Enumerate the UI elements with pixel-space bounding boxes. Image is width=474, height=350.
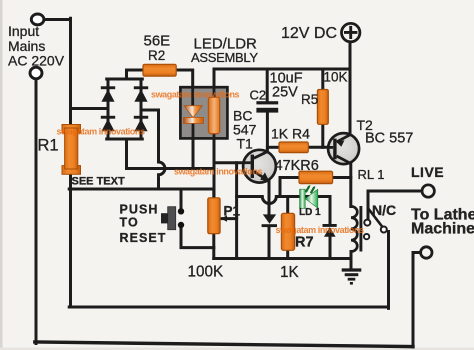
wire: junction to R4 left <box>267 146 279 149</box>
terminal: 12V DC plus <box>342 23 360 41</box>
LED/LDR assembly box <box>180 87 227 138</box>
svg-text:TO: TO <box>120 216 139 230</box>
svg-text:swagatam innovations: swagatam innovations <box>57 127 146 137</box>
relay contact A (N/C) <box>364 220 370 226</box>
resistor R5 <box>317 90 328 125</box>
bridge diode bottom-right <box>134 116 148 132</box>
wire: R6 right lead <box>333 176 351 179</box>
LDR <box>208 97 219 133</box>
svg-text:BC 557: BC 557 <box>365 131 413 147</box>
opto LED cathode bar <box>184 117 204 123</box>
wire: node horizontal y196 with hop over emitter line <box>237 197 330 204</box>
svg-text:R2: R2 <box>148 48 165 63</box>
terminal: mains input bottom <box>30 67 42 79</box>
wire: left outer vertical from terminal 2 <box>35 79 38 344</box>
svg-text:R1: R1 <box>38 137 59 155</box>
svg-text:N/C: N/C <box>372 202 396 218</box>
svg-text:RESET: RESET <box>120 231 167 245</box>
wire: C2 bottom lead to T1 collector <box>266 112 269 152</box>
svg-text:AC 220V: AC 220V <box>8 53 65 69</box>
svg-text:12V DC: 12V DC <box>281 25 337 42</box>
relay core bar <box>359 206 362 252</box>
wire: push button top lead <box>180 189 183 209</box>
wire: right outer vertical to lathe terminal <box>412 253 415 348</box>
terminal: lathe lower output <box>421 247 432 258</box>
svg-text:1K: 1K <box>280 264 300 281</box>
wire: T1 emitter lead to diode1 <box>268 181 271 216</box>
wire: T1 base lead <box>214 161 244 164</box>
wire: node X horizontal y189 <box>69 188 214 191</box>
relay RL1 coil <box>351 206 357 251</box>
LED lead inside assembly <box>191 88 194 138</box>
svg-text:T1: T1 <box>237 136 254 152</box>
wire: P1 top lead <box>212 189 215 199</box>
potentiometer P1 <box>208 198 220 234</box>
resistor R4 <box>279 142 308 153</box>
wire: LIVE wire to contact A <box>368 191 421 220</box>
bridge diode bottom-left <box>101 116 115 132</box>
resistor R2 <box>143 64 176 76</box>
relay armature <box>369 210 383 228</box>
wire: relay coil bottom to ground <box>350 252 353 268</box>
P1 wiper arrowhead <box>221 215 227 221</box>
bridge diode top-left <box>101 86 115 102</box>
push button <box>161 207 184 230</box>
svg-text:56E: 56E <box>144 33 171 50</box>
LDR lead inside assembly <box>213 88 216 138</box>
wire: R1 bottom to node X <box>69 174 72 190</box>
svg-text:LD 1: LD 1 <box>299 207 321 218</box>
wire: outer bottom rail <box>35 342 413 347</box>
resistor R7 <box>281 213 294 250</box>
svg-text:ASSEMBLY: ASSEMBLY <box>191 50 258 65</box>
svg-text:RL 1: RL 1 <box>358 167 385 182</box>
relay contact B (pole) <box>381 227 387 233</box>
svg-text:swagatam innovations: swagatam innovations <box>151 90 240 100</box>
LED LD1 green <box>300 185 318 208</box>
label Input Mains AC 220V <box>8 23 65 69</box>
wire: mains live vertical down to R1 <box>69 18 72 125</box>
wire: R2 right lead to LED anode <box>176 70 193 106</box>
resistor R6 <box>299 171 333 183</box>
wire: R4 right to T2 base <box>308 146 329 149</box>
svg-text:SEE TEXT: SEE TEXT <box>72 176 125 188</box>
resistor R1 <box>62 125 81 175</box>
wire: LDR top lead <box>213 70 216 98</box>
wire: P1 wiper <box>222 217 237 220</box>
photo left edge <box>0 0 3 350</box>
svg-text:swagatam innovations: swagatam innovations <box>174 167 263 177</box>
wire: R5 bottom lead <box>321 124 324 147</box>
bridge rectifier left branch <box>107 79 110 139</box>
svg-text:25V: 25V <box>272 85 298 101</box>
terminal: LIVE output <box>422 185 434 197</box>
diode D2 right of R7 <box>323 224 337 237</box>
wire: bridge AC right tap <box>141 109 159 112</box>
svg-text:47KR6: 47KR6 <box>275 158 319 174</box>
wire: node X down to inner bottom rail <box>69 189 72 307</box>
wire: 12V top rail <box>214 68 350 71</box>
wire: diode2 bottom lead <box>329 237 332 259</box>
wire: push button bottom lead <box>181 228 214 248</box>
bridge diode top-right <box>134 86 148 102</box>
opto LED triangle <box>184 106 203 118</box>
svg-text:Input: Input <box>8 23 39 39</box>
wire: diode1 bottom lead <box>268 227 271 259</box>
capacitor C2 <box>256 101 278 112</box>
wire: AC2 vertical with hop over DC- line <box>159 110 165 189</box>
label PUSH TO RESET <box>120 203 167 246</box>
bridge bottom rail <box>107 138 143 141</box>
wire: P1 bottom lead <box>212 233 215 259</box>
wire: inner rail up to relay contact B <box>387 232 390 309</box>
svg-text:swagatam innovations: swagatam innovations <box>276 225 365 235</box>
wire: tap to bridge AC left <box>71 107 109 110</box>
bridge rectifier right branch <box>140 79 143 139</box>
svg-text:1K R4: 1K R4 <box>271 126 310 142</box>
transistor T2 BC557 <box>328 133 359 164</box>
wire: ground bottom rail <box>214 257 351 260</box>
svg-text:PUSH: PUSH <box>120 203 159 217</box>
wire: LED cathode lead <box>192 123 195 169</box>
wire: R7 bottom lead <box>286 250 289 259</box>
wire: inner bottom rail <box>69 306 388 309</box>
terminal: mains input top <box>31 14 44 25</box>
ground symbol <box>342 270 362 283</box>
svg-text:10K: 10K <box>324 70 348 85</box>
wire: R5 top lead <box>321 69 324 90</box>
wire: R6 left lead down to node <box>280 178 299 197</box>
svg-text:R7: R7 <box>295 235 314 251</box>
svg-text:C2: C2 <box>250 88 267 103</box>
svg-text:100K: 100K <box>188 264 225 281</box>
svg-text:R5: R5 <box>301 92 318 107</box>
wire: R2 left lead to bridge plus <box>127 70 144 79</box>
wire: LDR bottom lead down to P1 <box>213 133 216 199</box>
svg-text:LIVE: LIVE <box>411 164 444 180</box>
wire: 12V dc feed down to T2 emitter <box>349 43 352 135</box>
wire: C2 top lead <box>266 69 269 102</box>
svg-text:Machine: Machine <box>411 220 474 237</box>
wire: bridge DC minus tap down and right to T1 base node <box>127 139 215 169</box>
transistor T1 BC547 <box>243 150 276 183</box>
svg-text:P1: P1 <box>224 204 241 219</box>
diode D1 under T1 emitter <box>262 214 277 227</box>
wire: T2 collector down to relay coil <box>349 163 352 207</box>
bridge top rail <box>107 78 143 81</box>
wire: terminal1 to corner <box>44 18 71 21</box>
wire: R7 top lead <box>286 197 289 215</box>
wire: stub to lathe lower terminal <box>413 251 421 254</box>
wire: base node vertical x236 down to ground rail <box>235 163 238 259</box>
relay contact C (N/O) <box>364 234 369 239</box>
wire: diode2 top lead <box>329 197 332 225</box>
